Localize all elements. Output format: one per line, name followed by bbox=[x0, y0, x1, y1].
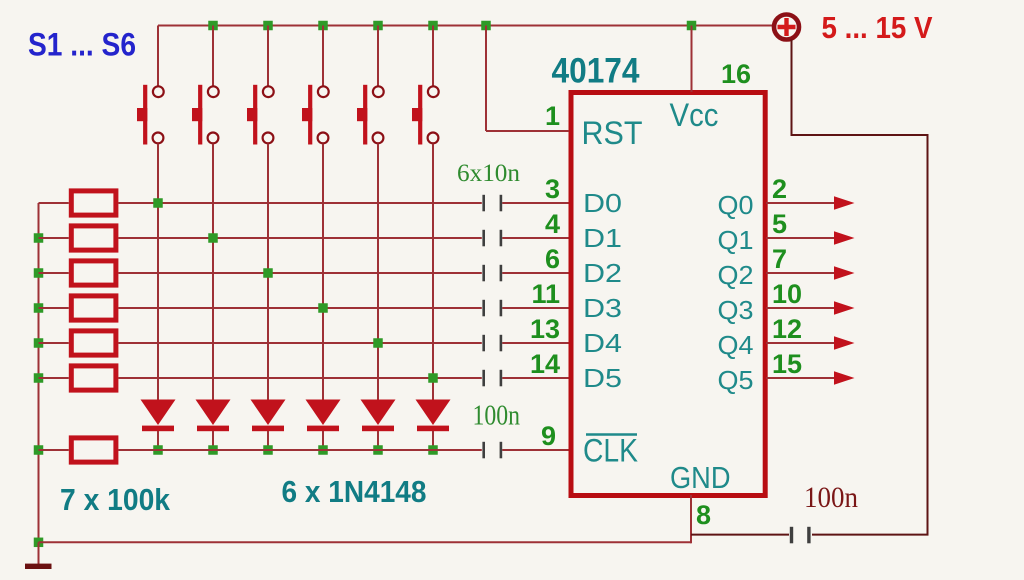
arrow Q2 bbox=[834, 266, 855, 279]
svg-text:Q2: Q2 bbox=[718, 260, 754, 290]
wire S5 column down to diode bbox=[377, 144, 379, 400]
wire pin8 to C8 bbox=[691, 534, 789, 536]
svg-text:D0: D0 bbox=[583, 188, 622, 218]
label CLK (with overline) bbox=[583, 433, 638, 469]
svg-text:4: 4 bbox=[545, 209, 560, 239]
wire C2 to pin D1 bbox=[502, 237, 569, 239]
wire pin16 Vcc bbox=[691, 26, 693, 93]
node D2-CLK junction bbox=[208, 445, 218, 455]
svg-text:S1 ... S6: S1 ... S6 bbox=[28, 27, 136, 63]
svg-text:8: 8 bbox=[696, 500, 711, 530]
wire C3 to pin D2 bbox=[502, 272, 569, 274]
node bus-R5 bbox=[34, 338, 44, 348]
wire bus to R2 bbox=[39, 237, 69, 239]
arrow Q4 bbox=[834, 336, 855, 349]
node rail-Vcc pin16 bbox=[687, 21, 697, 31]
diode D5 1N4148 bbox=[361, 400, 396, 432]
svg-text:9: 9 bbox=[541, 421, 556, 451]
wire C1 to pin D0 bbox=[502, 202, 569, 204]
wire bus to R7 bbox=[39, 449, 69, 451]
resistor R2 100k bbox=[71, 226, 116, 250]
wire Q2 output bbox=[766, 272, 836, 274]
diode D1 1N4148 bbox=[141, 400, 176, 432]
diode D3 1N4148 bbox=[251, 400, 286, 432]
svg-text:15: 15 bbox=[772, 349, 802, 379]
capacitor C8 100n bbox=[790, 527, 811, 544]
wire R4 to C4 (D3 row) bbox=[118, 307, 481, 309]
resistor R4 100k bbox=[71, 296, 116, 320]
wire Q1 output bbox=[766, 237, 836, 239]
power symbol +V bbox=[774, 15, 799, 40]
node rail-S2 bbox=[208, 21, 218, 31]
capacitor C4 10n bbox=[482, 300, 502, 317]
svg-text:6 x 1N4148: 6 x 1N4148 bbox=[282, 474, 427, 509]
wire bottom ground rail bbox=[39, 541, 692, 543]
svg-text:16: 16 bbox=[721, 59, 751, 89]
wire S4 column down to diode bbox=[322, 144, 324, 400]
resistor R7 100k bbox=[71, 438, 116, 462]
wire R5 to C5 (D4 row) bbox=[118, 342, 481, 344]
wire D2 to CLK row bbox=[212, 431, 214, 450]
svg-text:D1: D1 bbox=[583, 223, 622, 253]
wire Vcc top rail bbox=[158, 25, 772, 27]
pushbutton S4 bbox=[302, 26, 329, 145]
node rail-S5 bbox=[373, 21, 383, 31]
ground bbox=[25, 564, 52, 569]
node D1-CLK junction bbox=[153, 445, 163, 455]
wire S3 column down to diode bbox=[267, 144, 269, 400]
svg-text:Q5: Q5 bbox=[718, 365, 754, 395]
svg-text:14: 14 bbox=[530, 349, 560, 379]
node D6-CLK junction bbox=[428, 445, 438, 455]
wire D6 to CLK row bbox=[432, 431, 434, 450]
capacitor C1 10n bbox=[482, 195, 502, 212]
pushbutton S2 bbox=[192, 26, 219, 145]
svg-text:5: 5 bbox=[772, 209, 787, 239]
svg-text:100n: 100n bbox=[473, 401, 521, 432]
wire D3 to CLK row bbox=[267, 431, 269, 450]
wire pin8 GND down bbox=[690, 495, 692, 543]
wire D4 to CLK row bbox=[322, 431, 324, 450]
svg-text:5 ... 15 V: 5 ... 15 V bbox=[822, 10, 933, 45]
svg-text:1: 1 bbox=[545, 101, 560, 131]
node rail-S3 bbox=[263, 21, 273, 31]
node bus-R7 bbox=[34, 445, 44, 455]
svg-text:40174: 40174 bbox=[552, 52, 640, 91]
wire bus to R1 bbox=[39, 202, 69, 204]
svg-text:Q3: Q3 bbox=[718, 295, 754, 325]
op-amp U1 40174 hex D flip-flop body bbox=[571, 93, 765, 496]
wire S2 column down to diode bbox=[212, 144, 214, 400]
wire bus to R5 bbox=[39, 342, 69, 344]
arrow Q0 bbox=[834, 196, 855, 209]
wire S6 column down to diode bbox=[432, 144, 434, 400]
node bus-gnd bbox=[34, 538, 44, 548]
wire R1 to C1 (D0 row) bbox=[118, 202, 481, 204]
svg-text:Q1: Q1 bbox=[718, 225, 754, 255]
wire bus to R4 bbox=[39, 307, 69, 309]
svg-text:6x10n: 6x10n bbox=[457, 160, 521, 187]
wire +V to 100n decoupling cap (down right side) bbox=[792, 40, 928, 535]
node rail-S4 bbox=[318, 21, 328, 31]
wire bus to R3 bbox=[39, 272, 69, 274]
node S2-D1 junction bbox=[208, 233, 218, 243]
wire left bus (resistor common) bbox=[38, 203, 40, 542]
svg-text:12: 12 bbox=[772, 314, 802, 344]
node S4-D3 junction bbox=[318, 303, 328, 313]
wire S1 column down to diode bbox=[157, 144, 159, 400]
pushbutton S3 bbox=[247, 26, 274, 145]
svg-text:Q4: Q4 bbox=[718, 330, 754, 360]
resistor R5 100k bbox=[71, 331, 116, 355]
svg-text:CLK: CLK bbox=[583, 433, 638, 469]
wire RST from rail bbox=[485, 26, 487, 132]
svg-text:7 x 100k: 7 x 100k bbox=[60, 482, 171, 517]
pushbutton S5 bbox=[357, 26, 384, 145]
svg-text:RST: RST bbox=[582, 115, 643, 151]
resistor R6 100k bbox=[71, 366, 116, 390]
node bus-R4 bbox=[34, 303, 44, 313]
wire RST to pin 1 bbox=[486, 130, 569, 132]
resistor R3 100k bbox=[71, 261, 116, 285]
wire R2 to C2 (D1 row) bbox=[118, 237, 481, 239]
svg-text:GND: GND bbox=[670, 460, 731, 495]
wire C7 to pin CLK bbox=[502, 449, 569, 451]
diode D2 1N4148 bbox=[196, 400, 231, 432]
node bus-R2 bbox=[34, 233, 44, 243]
svg-text:D2: D2 bbox=[583, 258, 622, 288]
wire R3 to C3 (D2 row) bbox=[118, 272, 481, 274]
capacitor C7 100n bbox=[482, 442, 502, 459]
node rail-RST bbox=[481, 21, 491, 31]
node bus-R3 bbox=[34, 268, 44, 278]
capacitor C2 10n bbox=[482, 230, 502, 247]
node S1-D0 junction bbox=[153, 198, 163, 208]
wire C6 to pin D5 bbox=[502, 377, 569, 379]
svg-text:6: 6 bbox=[545, 244, 560, 274]
node bus-R6 bbox=[34, 373, 44, 383]
wire D5 to CLK row bbox=[377, 431, 379, 450]
arrow Q3 bbox=[834, 301, 855, 314]
arrow Q5 bbox=[834, 371, 855, 384]
resistor R1 100k bbox=[71, 191, 116, 215]
diode D4 1N4148 bbox=[306, 400, 341, 432]
wire bus to R6 bbox=[39, 377, 69, 379]
wire D1 to CLK row bbox=[157, 431, 159, 450]
wire to ground bbox=[38, 542, 40, 564]
svg-text:100n: 100n bbox=[804, 481, 858, 514]
wire Q5 output bbox=[766, 377, 836, 379]
svg-text:2: 2 bbox=[772, 174, 787, 204]
wire Q4 output bbox=[766, 342, 836, 344]
node S3-D2 junction bbox=[263, 268, 273, 278]
capacitor C6 10n bbox=[482, 370, 502, 387]
svg-text:13: 13 bbox=[530, 314, 560, 344]
node rail-S6 bbox=[428, 21, 438, 31]
capacitor C3 10n bbox=[482, 265, 502, 282]
node D4-CLK junction bbox=[318, 445, 328, 455]
svg-text:7: 7 bbox=[772, 244, 787, 274]
svg-text:D5: D5 bbox=[583, 363, 622, 393]
svg-text:10: 10 bbox=[772, 279, 802, 309]
svg-text:3: 3 bbox=[545, 174, 560, 204]
wire C5 to pin D4 bbox=[502, 342, 569, 344]
wire R6 to C6 (D5 row) bbox=[118, 377, 481, 379]
svg-text:Q0: Q0 bbox=[718, 190, 754, 220]
svg-text:D3: D3 bbox=[583, 293, 622, 323]
arrow Q1 bbox=[834, 231, 855, 244]
pushbutton S6 bbox=[412, 26, 439, 145]
svg-text:D4: D4 bbox=[583, 328, 622, 358]
node S6-D5 junction bbox=[428, 373, 438, 383]
pushbutton S1 bbox=[137, 26, 164, 145]
node D3-CLK junction bbox=[263, 445, 273, 455]
diode D6 1N4148 bbox=[416, 400, 451, 432]
wire Q0 output bbox=[766, 202, 836, 204]
wire Q3 output bbox=[766, 307, 836, 309]
svg-text:11: 11 bbox=[531, 279, 560, 309]
wire C4 to pin D3 bbox=[502, 307, 569, 309]
capacitor C5 10n bbox=[482, 335, 502, 352]
node D5-CLK junction bbox=[373, 445, 383, 455]
node S5-D4 junction bbox=[373, 338, 383, 348]
wire R7 to C7 (CLK row) bbox=[118, 449, 481, 451]
svg-text:Vcc: Vcc bbox=[670, 97, 719, 133]
